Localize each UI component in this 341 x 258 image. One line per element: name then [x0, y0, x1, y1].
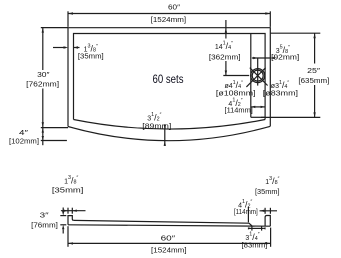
arrowheads dim 30in — [42, 28, 44, 33]
svg-text:[92mm]: [92mm] — [271, 55, 299, 62]
dim 14-1/4in: dimension line segments — [225, 20, 227, 39]
side view: left lip — [68, 216, 74, 225]
dim 3in side: dimension line tails — [62, 208, 64, 212]
arrowheads dim 1-3/8in side left — [64, 210, 69, 212]
svg-text:[35mm]: [35mm] — [78, 53, 104, 60]
drain centerline horizontal — [223, 75, 249, 77]
svg-text:[1524mm]: [1524mm] — [151, 17, 187, 24]
dim 3-1/2in mid: dimension line — [164, 126, 166, 146]
arrowheads dim 25in — [313, 33, 315, 38]
arrowheads dim 4-1/2in plan — [251, 106, 256, 108]
svg-text:[114mm]: [114mm] — [225, 107, 253, 114]
arrowheads dim 3in side — [62, 211, 64, 216]
drain outer circle — [251, 69, 265, 83]
dim 25in right: extension lines — [270, 32, 320, 34]
dim 4-1/2in side + 1-3/8in side right: shared dimension line — [260, 210, 278, 212]
arrowheads dim 3-5/8in — [253, 57, 258, 59]
svg-text:[35mm]: [35mm] — [255, 189, 280, 196]
dim 4-1/2in side: left extension tick — [247, 207, 249, 223]
arrowheads dim 3-1/4in side — [248, 227, 252, 229]
svg-text:[ø108mm]: [ø108mm] — [216, 90, 256, 97]
arrowheads dim 60in bottom — [68, 242, 73, 244]
dim 60in top: extension lines — [67, 11, 69, 27]
svg-text:[ø83mm]: [ø83mm] — [263, 90, 298, 97]
arrowheads dim 3-1/2in mid — [164, 124, 166, 128]
dim 1-3/8in side right: extension ticks — [264, 208, 266, 214]
dim 3-5/8in: dimension line — [252, 57, 271, 59]
svg-text:60 sets: 60 sets — [153, 74, 184, 86]
dim 30in left: extension line top — [41, 27, 68, 29]
dim 25in right: dimension line segments — [314, 33, 316, 63]
arrowheads dim 1-3/8in plan — [64, 46, 69, 48]
dim 3in side: extension lines — [60, 215, 66, 217]
svg-text:30″: 30″ — [37, 72, 50, 79]
side view: slab bottom line — [68, 225, 270, 226]
dim 4in left: extension lines — [41, 127, 68, 129]
dim 1-3/8in side left: extension ticks — [67, 208, 69, 214]
dim 3-1/4in side: extension ticks — [251, 226, 253, 230]
drain centerline vertical — [257, 58, 259, 85]
arrowhead dim 4-1/2in side — [260, 210, 265, 212]
outer bottom curve — [68, 126, 270, 140]
svg-text:25″: 25″ — [307, 68, 321, 75]
svg-text:[762mm]: [762mm] — [26, 82, 59, 89]
side view: right lip — [265, 216, 270, 227]
svg-text:[83mm]: [83mm] — [242, 242, 268, 249]
svg-text:60″: 60″ — [168, 5, 181, 12]
svg-text:[1524mm]: [1524mm] — [151, 247, 187, 254]
arrowheads dim 60in top — [68, 12, 73, 14]
dim 4-1/2in plan: dimension line — [251, 106, 265, 108]
svg-text:[76mm]: [76mm] — [31, 222, 58, 229]
svg-text:3″: 3″ — [40, 213, 50, 220]
svg-text:[35mm]: [35mm] — [52, 188, 84, 195]
drain inner circle — [252, 70, 263, 81]
dim 60in bottom: extension lines — [67, 226, 69, 247]
dim 60in bottom: dimension line — [68, 242, 271, 244]
drain channel strip left edge — [250, 34, 252, 118]
svg-text:[114mm]: [114mm] — [234, 209, 258, 216]
drain cross diagonal NW-SE (leader to ø3¼ text) — [250, 68, 268, 86]
dim 60in top: dimension line — [68, 13, 270, 15]
svg-text:[102mm]: [102mm] — [9, 138, 39, 145]
side view: slab top surface — [74, 220, 252, 226]
dim 3-1/4in side: dimension line — [249, 227, 264, 229]
arrowheads dim 4in — [42, 128, 44, 133]
svg-text:60″: 60″ — [161, 236, 176, 243]
dim 1-3/8in side left: dimension line — [61, 210, 86, 212]
dim 4in left: dimension line with tail — [42, 128, 44, 146]
dim 30in left: dimension line segments — [42, 28, 44, 70]
drain channel strip bottom — [251, 116, 265, 118]
svg-text:[635mm]: [635mm] — [298, 78, 329, 85]
inner rim outline (plan view) — [74, 34, 266, 120]
svg-text:4″: 4″ — [19, 130, 29, 137]
outer rim outline (plan view) — [68, 28, 270, 127]
svg-text:[362mm]: [362mm] — [209, 54, 241, 61]
arrowheads dim 14-1/4in — [225, 28, 227, 33]
inner bottom curve — [74, 120, 266, 130]
dim 1-3/8in plan: dimension line tails — [53, 47, 66, 49]
drain cross diagonal NE-SW (leader to ø4¼ text) — [246, 68, 265, 87]
svg-text:[89mm]: [89mm] — [142, 123, 171, 130]
